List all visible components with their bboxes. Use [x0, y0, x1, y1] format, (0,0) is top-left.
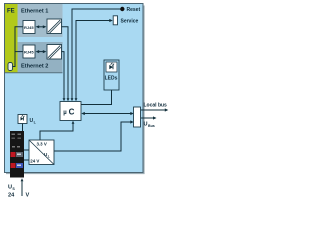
wires power connector to DCDC — [24, 149, 29, 151]
wire DCDC to connector (Ubus) — [54, 122, 131, 151]
svg-text:24 V: 24 V — [30, 158, 39, 163]
main panel — [5, 4, 144, 173]
svg-text:Local bus: Local bus — [144, 103, 168, 109]
Ethernet 2 panel — [18, 42, 63, 73]
transformer 1 — [47, 19, 62, 34]
LEDs block — [104, 60, 119, 90]
supply arrow — [21, 181, 23, 197]
svg-text:Ethernet 2: Ethernet 2 — [21, 64, 48, 70]
FE wire stub row2 — [15, 51, 23, 53]
UL LED box — [18, 115, 27, 124]
panel shadow — [6, 6, 144, 174]
svg-text:µ: µ — [63, 110, 67, 116]
svg-text:24: 24 — [8, 193, 15, 199]
svg-text:V: V — [26, 193, 30, 199]
wire DCDC to uC — [40, 123, 73, 141]
double arrow 1 — [37, 26, 45, 28]
svg-text:L: L — [48, 154, 50, 158]
svg-text:Ethernet 1: Ethernet 1 — [21, 9, 48, 15]
transformer 2 — [47, 45, 62, 60]
svg-text:LEDs: LEDs — [105, 75, 118, 81]
svg-text:U: U — [144, 121, 148, 127]
svg-text:FE: FE — [7, 9, 15, 15]
wire LEDs to uC — [81, 90, 112, 105]
svg-text:RJ45: RJ45 — [24, 25, 34, 30]
FE tab — [8, 63, 13, 71]
RJ45 port 2 — [23, 45, 35, 58]
FE green strip — [5, 4, 18, 73]
service wire — [76, 21, 110, 100]
local bus wire uC-connector — [83, 113, 133, 115]
svg-text:Service: Service — [121, 19, 139, 25]
service switch — [113, 16, 117, 25]
double arrow 2 — [37, 51, 45, 53]
wire transformer2 to uC — [62, 52, 65, 99]
reset button — [120, 7, 124, 11]
svg-text:3.3 V: 3.3 V — [37, 141, 47, 146]
local bus out arrow — [141, 109, 166, 111]
panel bottom edge line — [5, 72, 63, 74]
svg-text:RJ45: RJ45 — [24, 50, 34, 55]
svg-text:S: S — [12, 187, 15, 191]
svg-text:C: C — [69, 108, 75, 117]
wire UL to power connector — [22, 124, 24, 132]
FE wire — [13, 27, 24, 67]
microcontroller U1 — [60, 102, 81, 121]
svg-text:Bus: Bus — [148, 124, 155, 128]
local bus connector — [134, 107, 141, 127]
DC/DC converter — [29, 140, 54, 165]
Ethernet 1 panel — [18, 4, 63, 37]
reset wire — [72, 9, 120, 99]
LED symbol — [109, 65, 113, 69]
Ubus out arrow — [141, 117, 154, 119]
svg-text:Reset: Reset — [127, 7, 141, 13]
RJ45 port 1 — [23, 21, 35, 34]
wire transformer1 to uC — [62, 27, 69, 99]
power connector (photo) — [10, 131, 24, 178]
